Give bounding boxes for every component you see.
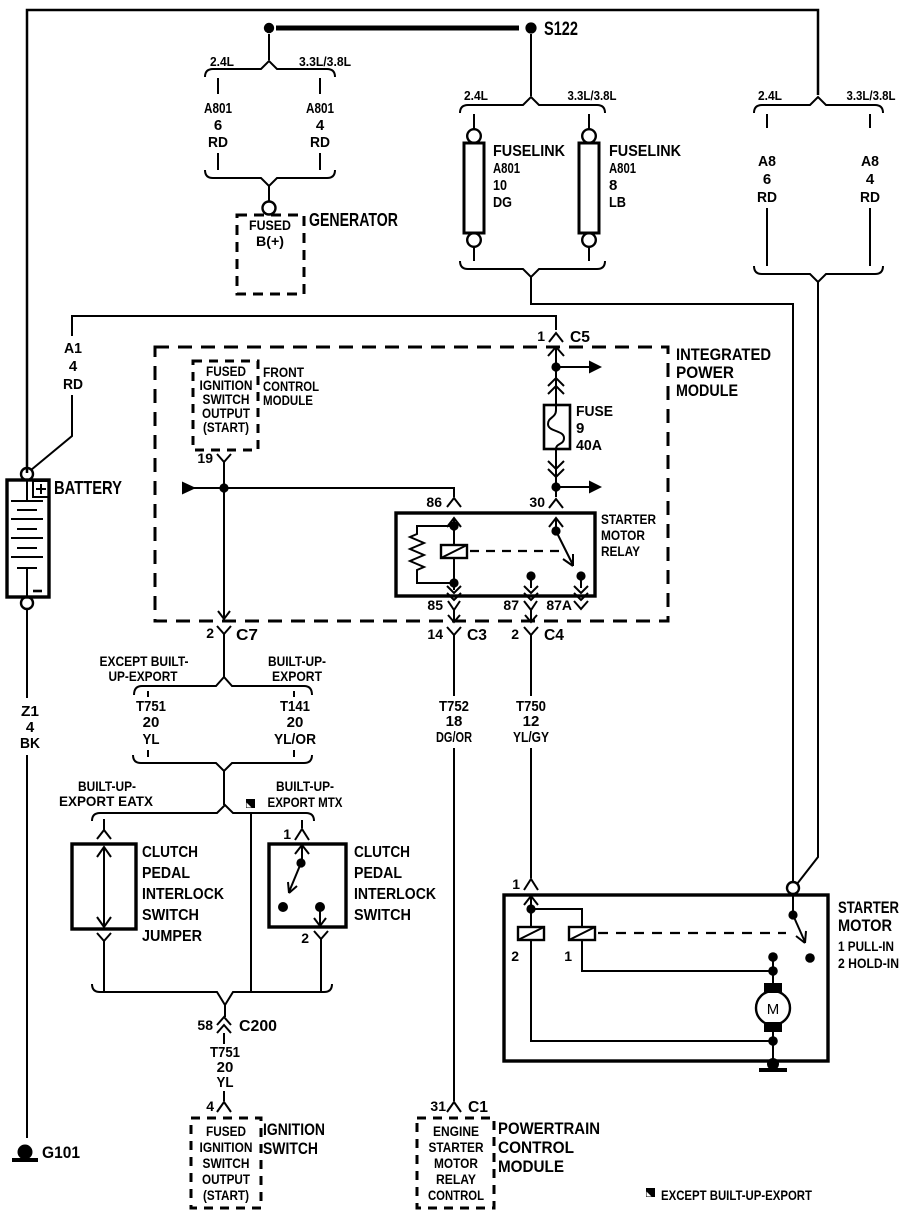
- node solenoid contact: [805, 953, 815, 963]
- svg-text:8: 8: [609, 177, 617, 194]
- wire A8 output down to starter motor B+: [797, 282, 818, 884]
- fuselink A801 8 LB : bottom stub: [588, 247, 590, 261]
- svg-text:2: 2: [301, 930, 309, 946]
- wire coil 1 to motor top node: [582, 940, 773, 971]
- svg-text:EXCEPT BUILT-: EXCEPT BUILT-: [100, 653, 189, 669]
- svg-text:1: 1: [564, 948, 572, 964]
- svg-text:RD: RD: [860, 189, 880, 206]
- connector C1 male chevron: [447, 1102, 461, 1112]
- svg-text:RD: RD: [757, 189, 777, 206]
- svg-text:RD: RD: [208, 134, 228, 151]
- fuselink A801 8 LB : body: [579, 143, 599, 233]
- relay 87 exit wire and double chevron: [530, 576, 532, 588]
- svg-text:OUTPUT: OUTPUT: [202, 1172, 251, 1187]
- svg-text:10: 10: [493, 177, 507, 194]
- svg-text:C4: C4: [544, 627, 564, 644]
- node motor feed upper: [768, 952, 778, 962]
- svg-text:OUTPUT: OUTPUT: [202, 406, 251, 421]
- svg-text:S122: S122: [544, 19, 578, 40]
- svg-text:31: 31: [430, 1098, 446, 1114]
- jumper output female chevron: [97, 933, 111, 941]
- svg-text:RELAY: RELAY: [436, 1172, 476, 1187]
- arrow feed right (below fuse): [556, 486, 589, 488]
- relay armature arm with arrowhead: [556, 531, 573, 565]
- svg-text:4: 4: [866, 171, 875, 188]
- svg-text:CLUTCH: CLUTCH: [354, 844, 410, 861]
- svg-text:40A: 40A: [576, 437, 602, 454]
- svg-text:YL: YL: [143, 731, 160, 748]
- connector C5 male chevron: [549, 333, 563, 342]
- svg-text:14: 14: [427, 626, 443, 642]
- svg-text:2.4L: 2.4L: [210, 54, 234, 69]
- clutch pedal interlock switch box: [269, 844, 346, 927]
- switch pin 2 female Y: [314, 931, 328, 948]
- merge bracket A8: [754, 266, 883, 282]
- switch pin 1 female half inside: [295, 845, 309, 854]
- svg-text:DG: DG: [493, 194, 512, 211]
- svg-text:1: 1: [537, 328, 545, 344]
- node FCM junction: [219, 483, 228, 492]
- fuse element curve: [548, 405, 564, 449]
- wire stub to ignition switch pin 4: [223, 1091, 225, 1101]
- wire B+ terminal into box: [792, 894, 794, 915]
- svg-text:1: 1: [283, 826, 291, 842]
- svg-text:MODULE: MODULE: [498, 1157, 564, 1176]
- wire S122 to fuselink split bracket: [530, 34, 532, 96]
- svg-text:JUMPER: JUMPER: [142, 928, 202, 945]
- split bracket export options: [134, 677, 312, 695]
- svg-text:RD: RD: [63, 376, 83, 393]
- fuselink A801 10 DG : top terminal circle: [467, 129, 481, 143]
- svg-text:A801: A801: [493, 160, 520, 177]
- svg-text:20: 20: [287, 714, 304, 731]
- node solenoid switch pivot: [788, 910, 797, 919]
- node S122 left dot: [264, 23, 274, 33]
- wire switch pin 2 to merge bracket: [320, 948, 322, 991]
- svg-text:FUSELINK: FUSELINK: [609, 143, 681, 160]
- integrated power module dashed box: [155, 347, 668, 621]
- svg-text:STARTER: STARTER: [838, 898, 899, 917]
- front control module dashed box: [193, 361, 258, 450]
- svg-text:T751: T751: [136, 698, 166, 715]
- svg-text:MOTOR: MOTOR: [838, 916, 892, 935]
- battery plates: [11, 501, 43, 568]
- svg-text:2: 2: [206, 625, 214, 641]
- node relay contact 87: [526, 571, 535, 580]
- relay pin 30 male chevron: [549, 499, 563, 508]
- svg-text:C5: C5: [570, 329, 590, 346]
- node junction below fuse: [551, 482, 560, 491]
- wire A1 4 RD lower stub + diagonal to battery: [31, 395, 72, 470]
- wire Z1 4 BK to ground: [26, 755, 28, 1138]
- powertrain control module dashed box: [417, 1118, 494, 1208]
- svg-text:EXPORT MTX: EXPORT MTX: [268, 794, 344, 810]
- wire motor feed: [772, 957, 774, 983]
- battery minus sign: [33, 590, 42, 593]
- svg-text:T141: T141: [280, 698, 310, 715]
- node motor ground junction: [768, 1036, 778, 1046]
- svg-text:FRONT: FRONT: [263, 365, 305, 380]
- svg-text:(START): (START): [203, 1188, 249, 1203]
- wire T752 18 DG/OR to PCM C1: [453, 748, 455, 1101]
- svg-text:A801: A801: [609, 160, 636, 177]
- merge bracket export options: [133, 755, 312, 771]
- battery plus sign: [36, 484, 46, 494]
- fuse 9 40A body: [544, 405, 570, 449]
- svg-text:BATTERY: BATTERY: [54, 478, 122, 498]
- relay coil wire: [453, 519, 455, 590]
- wire T750 12 YL/GY upper: [530, 645, 532, 696]
- wire T141 20 YL/OR tick bottom: [293, 750, 295, 757]
- ground G101 symbol: [18, 1145, 33, 1160]
- wire FCM junction to relay pin 86: [224, 488, 454, 497]
- fuselink A801 8 LB : top stub: [588, 114, 590, 129]
- splice S122 bus: [276, 26, 519, 31]
- battery plus terminal box: [33, 481, 49, 497]
- svg-text:SWITCH: SWITCH: [354, 907, 411, 924]
- svg-text:3.3L/3.8L: 3.3L/3.8L: [847, 88, 896, 103]
- relay coil element: [441, 545, 467, 558]
- relay pin 30 female half inside: [549, 518, 563, 527]
- node relay pivot: [551, 526, 560, 535]
- svg-text:1 PULL-IN: 1 PULL-IN: [838, 939, 894, 954]
- svg-text:UP-EXPORT: UP-EXPORT: [109, 668, 178, 684]
- wire coil 2 to motor ground node: [531, 940, 773, 1041]
- svg-text:4: 4: [26, 719, 35, 736]
- svg-text:3.3L/3.8L: 3.3L/3.8L: [568, 88, 617, 103]
- wire jumper output to merge bracket: [103, 941, 105, 991]
- relay pin 85 exit arrow through IPM edge: [448, 610, 460, 622]
- svg-text:SWITCH: SWITCH: [263, 1139, 318, 1158]
- svg-text:2.4L: 2.4L: [464, 88, 488, 103]
- wire pin 1 to coils junction: [530, 897, 532, 927]
- svg-text:MOTOR: MOTOR: [601, 528, 645, 543]
- relay pin 87 male chevron below box: [524, 601, 537, 610]
- relay pin 86 male chevron: [447, 498, 461, 507]
- svg-text:CONTROL: CONTROL: [498, 1138, 574, 1157]
- connector C200 double chevron: [217, 1017, 231, 1033]
- svg-text:PEDAL: PEDAL: [142, 865, 190, 882]
- connector C3 female Y: [447, 627, 461, 645]
- svg-text:BUILT-UP-: BUILT-UP-: [268, 653, 326, 669]
- battery internal bottom wire: [26, 568, 28, 597]
- svg-text:ENGINE: ENGINE: [433, 1124, 479, 1139]
- svg-text:9: 9: [576, 420, 584, 437]
- svg-text:4: 4: [206, 1098, 214, 1114]
- svg-text:POWER: POWER: [676, 363, 734, 382]
- svg-text:RD: RD: [310, 134, 330, 151]
- starter motor box: [504, 895, 828, 1061]
- svg-text:FUSED: FUSED: [206, 1124, 246, 1139]
- wire A8 6 RD stub top: [766, 114, 768, 128]
- svg-text:INTEGRATED: INTEGRATED: [676, 345, 771, 364]
- svg-text:RELAY: RELAY: [601, 544, 640, 559]
- relay pin 87 exit arrow through IPM edge: [525, 610, 537, 622]
- node coil feed junction: [526, 904, 535, 913]
- svg-text:C200: C200: [239, 1018, 277, 1035]
- wire T750 12 YL/GY to starter motor: [530, 748, 532, 878]
- svg-text:SWITCH: SWITCH: [142, 907, 199, 924]
- svg-text:A1: A1: [64, 340, 82, 357]
- fuselink A801 10 DG : body: [464, 143, 484, 233]
- svg-text:6: 6: [763, 171, 771, 188]
- svg-text:EXPORT EATX: EXPORT EATX: [59, 793, 154, 809]
- wire bracket to C200: [224, 1005, 226, 1017]
- wire A1 4 RD : battery to C5 feed: [72, 316, 556, 336]
- svg-text:3.3L/3.8L: 3.3L/3.8L: [299, 54, 351, 69]
- inline double chevron below fuse: [548, 461, 564, 477]
- svg-text:30: 30: [529, 494, 545, 510]
- terminal circle generator B(+): [263, 202, 276, 215]
- svg-text:Z1: Z1: [21, 703, 39, 720]
- svg-text:A801: A801: [204, 100, 232, 117]
- connector C5 female half inside IPM: [548, 347, 564, 356]
- relay pin 86 female half inside: [447, 518, 461, 527]
- battery negative terminal circle: [21, 597, 33, 609]
- incoming arrow at FCM junction: [182, 482, 196, 495]
- node relay coil bottom: [449, 578, 458, 587]
- fuselink A801 10 DG : bottom stub: [473, 247, 475, 261]
- svg-text:6: 6: [214, 117, 222, 134]
- svg-text:BK: BK: [20, 735, 40, 752]
- wire junction to pull-in coil 1: [531, 909, 582, 927]
- fuselink A801 8 LB : bottom terminal circle: [582, 233, 596, 247]
- connector C4 female Y: [524, 627, 538, 645]
- svg-text:MODULE: MODULE: [263, 393, 313, 408]
- relay 87A exit wire and double chevron: [580, 576, 582, 588]
- FCM pin 19 female Y connector: [217, 454, 231, 468]
- clutch pedal interlock switch jumper box: [72, 844, 136, 929]
- svg-text:2: 2: [511, 626, 519, 642]
- wire A8 4 RD stub bottom: [869, 208, 871, 266]
- node relay contact 87A: [576, 571, 585, 580]
- svg-text:POWERTRAIN: POWERTRAIN: [498, 1119, 600, 1138]
- wire C5 to fuse: [555, 348, 557, 405]
- svg-text:FUSELINK: FUSELINK: [493, 143, 565, 160]
- arrow feed right (above fuse): [556, 366, 589, 368]
- wire C200 to ignition switch: [223, 1033, 225, 1044]
- svg-text:SWITCH: SWITCH: [203, 1156, 250, 1171]
- MTX switch pin 1 male chevron: [295, 829, 309, 840]
- motor M armature circle: [756, 991, 790, 1025]
- solenoid switch blade with arrowhead: [793, 915, 805, 942]
- wire bracket to transmission split: [223, 771, 225, 805]
- svg-text:EXPORT: EXPORT: [272, 668, 322, 684]
- wire EATX branch stub: [103, 819, 105, 830]
- relay resistor (parallel): [410, 526, 454, 583]
- battery positive terminal circle: [21, 468, 33, 480]
- svg-text:MOTOR: MOTOR: [434, 1156, 478, 1171]
- wire C7 to export split bracket: [223, 643, 225, 677]
- svg-text:19: 19: [197, 450, 213, 466]
- wire S122 to generator split bracket: [268, 34, 270, 60]
- svg-text:87A: 87A: [546, 597, 572, 613]
- wire bypass (except built-up-export): [250, 813, 252, 991]
- wire A801 4 RD stub bottom: [319, 153, 321, 170]
- node switch contact open: [278, 902, 288, 912]
- svg-text:86: 86: [426, 494, 442, 510]
- fuselink A801 10 DG : bottom terminal circle: [467, 233, 481, 247]
- wire bracket to generator terminal: [268, 186, 270, 201]
- battery internal top wire: [26, 480, 28, 501]
- svg-text:IGNITION: IGNITION: [200, 378, 253, 393]
- switch pin 2 exit arrow: [314, 907, 326, 926]
- svg-text:A8: A8: [861, 153, 879, 170]
- svg-text:18: 18: [446, 713, 463, 730]
- svg-text:C7: C7: [236, 627, 258, 644]
- dashed link coil to solenoid switch: [598, 932, 786, 934]
- merge bracket generator: [205, 170, 335, 186]
- svg-text:YL/OR: YL/OR: [274, 731, 316, 748]
- split bracket transmission options: [92, 805, 314, 821]
- svg-text:GENERATOR: GENERATOR: [309, 210, 398, 230]
- merge bracket fuselinks: [460, 261, 605, 277]
- relay pin 85 exit double chevron: [447, 586, 461, 600]
- svg-text:85: 85: [427, 597, 443, 613]
- starter motor relay box: [396, 513, 595, 596]
- svg-text:DG/OR: DG/OR: [436, 729, 472, 746]
- wire T752 18 DG/OR upper: [453, 645, 455, 696]
- hold-in coil 2 element: [518, 927, 544, 940]
- relay coil to armature dashed link: [470, 550, 562, 552]
- fuselink A801 10 DG : top stub: [473, 114, 475, 129]
- svg-text:PEDAL: PEDAL: [354, 865, 402, 882]
- svg-text:CONTROL: CONTROL: [428, 1188, 484, 1203]
- svg-text:1: 1: [512, 876, 520, 892]
- pull-in coil 1 element: [569, 927, 595, 940]
- relay armature pivot wire: [555, 519, 557, 531]
- wire motor to ground: [772, 1032, 774, 1060]
- wire MTX branch stub: [301, 820, 303, 828]
- split bracket fuselinks: [460, 97, 605, 113]
- wire T751 20 YL tick bottom: [147, 750, 149, 757]
- EATX jumper male chevron: [97, 830, 111, 839]
- generator dashed box: [237, 215, 304, 294]
- node junction above fuse: [551, 362, 560, 371]
- svg-text:IGNITION: IGNITION: [200, 1140, 253, 1155]
- svg-text:58: 58: [197, 1017, 213, 1033]
- checkbox icon (except built-up-export note): [646, 1188, 655, 1197]
- wire A801 6 RD stub top: [217, 78, 219, 94]
- wire T751 20 YL tick top: [147, 691, 149, 697]
- switch pivot wire: [301, 846, 303, 863]
- motor bottom brush: [764, 1022, 782, 1032]
- svg-text:4: 4: [69, 358, 78, 375]
- svg-text:4: 4: [316, 117, 325, 134]
- svg-text:CLUTCH: CLUTCH: [142, 844, 198, 861]
- svg-text:CONTROL: CONTROL: [263, 379, 319, 394]
- battery body box: [7, 480, 49, 597]
- ignition switch pin 4 male chevron: [217, 1102, 231, 1112]
- wire battery B+ top bus (left vertical, top horizontal, right drop): [27, 10, 818, 473]
- svg-text:M: M: [767, 1001, 780, 1018]
- svg-text:YL/GY: YL/GY: [513, 729, 549, 746]
- switch blade with arrowhead: [289, 863, 301, 892]
- starter motor pin 1 female half inside: [524, 896, 538, 905]
- node S122 right dot: [525, 22, 536, 33]
- svg-text:FUSED: FUSED: [206, 364, 246, 379]
- fuselink A801 8 LB : top terminal circle: [582, 129, 596, 143]
- starter motor pin 1 male chevron: [524, 879, 538, 890]
- inline double chevron above fuse: [548, 378, 564, 394]
- svg-text:B(+): B(+): [256, 233, 284, 249]
- checkbox icon (built-up-export MTX): [246, 799, 255, 808]
- wire A801 4 RD stub top: [319, 78, 321, 94]
- svg-text:EXCEPT BUILT-UP-EXPORT: EXCEPT BUILT-UP-EXPORT: [661, 1187, 812, 1203]
- svg-text:LB: LB: [609, 194, 626, 211]
- ground symbol at starter motor: [767, 1058, 779, 1070]
- wire A801 6 RD stub bottom: [217, 153, 219, 170]
- merge bracket at C200: [92, 984, 332, 1005]
- ignition switch dashed box: [191, 1118, 261, 1208]
- node motor feed: [768, 966, 778, 976]
- split bracket A8 feed: [754, 97, 883, 113]
- svg-text:IGNITION: IGNITION: [263, 1120, 325, 1139]
- svg-text:MODULE: MODULE: [676, 381, 738, 400]
- svg-text:SWITCH: SWITCH: [203, 392, 250, 407]
- svg-text:2.4L: 2.4L: [758, 88, 782, 103]
- relay pin 87A chevron below box: [574, 601, 588, 609]
- split bracket generator feed: [205, 61, 335, 77]
- svg-text:(START): (START): [203, 420, 249, 435]
- wire exit arrow through IPM bottom at C7: [218, 611, 230, 619]
- wire fuse to relay pin 30: [555, 449, 557, 497]
- svg-text:A8: A8: [758, 153, 776, 170]
- node switch pivot: [296, 858, 305, 867]
- wire T141 20 YL/OR tick top: [293, 691, 295, 697]
- svg-text:YL: YL: [217, 1074, 234, 1091]
- node switch contact to pin 2: [315, 902, 325, 912]
- wire Z1 4 BK stub top: [26, 609, 28, 698]
- svg-text:A801: A801: [306, 100, 334, 117]
- svg-text:C3: C3: [467, 627, 487, 644]
- svg-text:STARTER: STARTER: [601, 512, 656, 527]
- relay pin 85 male chevron below box: [448, 601, 460, 610]
- svg-text:2 HOLD-IN: 2 HOLD-IN: [838, 956, 899, 971]
- svg-text:12: 12: [523, 713, 540, 730]
- svg-text:FUSED: FUSED: [249, 217, 291, 233]
- svg-text:G101: G101: [42, 1143, 80, 1162]
- svg-text:INTERLOCK: INTERLOCK: [142, 886, 224, 903]
- wire fuselink output to starter motor B+: [531, 277, 793, 882]
- svg-text:C1: C1: [468, 1099, 488, 1116]
- starter B+ terminal circle: [787, 882, 799, 894]
- connector C7 female Y: [217, 626, 231, 643]
- wire A8 6 RD stub bottom: [766, 208, 768, 266]
- svg-text:STARTER: STARTER: [429, 1140, 484, 1155]
- svg-text:INTERLOCK: INTERLOCK: [354, 886, 436, 903]
- wire FCM pin 19 down to C7: [223, 468, 225, 611]
- jumper internal double-ended arrow: [97, 847, 111, 927]
- svg-text:BUILT-UP-: BUILT-UP-: [78, 778, 136, 794]
- svg-text:BUILT-UP-: BUILT-UP-: [276, 778, 334, 794]
- svg-text:2: 2: [511, 948, 519, 964]
- svg-text:20: 20: [143, 714, 160, 731]
- node relay coil top: [449, 521, 458, 530]
- svg-text:87: 87: [503, 597, 519, 613]
- svg-text:FUSE: FUSE: [576, 403, 613, 420]
- motor top brush: [764, 983, 782, 993]
- wire A8 4 RD stub top: [869, 114, 871, 128]
